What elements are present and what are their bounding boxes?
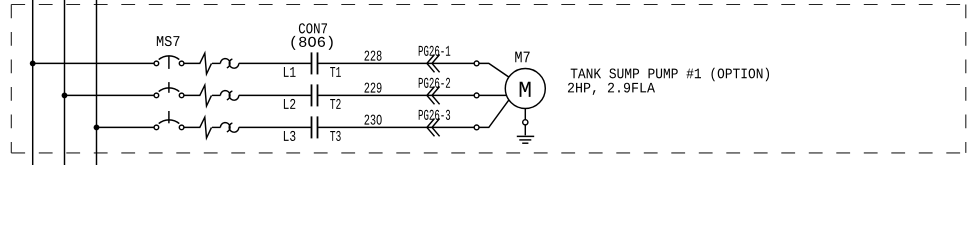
motor terminal node row 1: [474, 61, 479, 66]
ground terminal node: [523, 120, 528, 125]
wire row 2 contact to breaker: [184, 94, 201, 96]
label L1: [284, 67, 296, 77]
label L2: [284, 99, 295, 109]
overload heater element pole 2: [220, 91, 238, 101]
label M inside motor: [520, 82, 531, 97]
motor terminal node row 3: [474, 125, 479, 130]
wire 230 T3 to motor terminal: [318, 126, 474, 128]
overload heater element pole 1: [220, 59, 238, 69]
wire row 2 overload to CON7 terminal L2: [239, 94, 311, 96]
circuit-breaker element pole 2: [200, 85, 212, 106]
wire row 3 terminal to motor (diagonal): [479, 100, 509, 128]
wire phase bus 1 (vertical): [32, 0, 34, 165]
circuit-breaker element pole 1: [200, 53, 212, 74]
contact MS7 pole 2: [154, 88, 184, 98]
contactor CON7 terminal bars L2/T2: [312, 84, 318, 106]
label TANK SUMP PUMP #1 (OPTION): [571, 68, 769, 82]
wire row 1 breaker to overload: [212, 62, 221, 64]
wire row 2 breaker to overload: [212, 94, 221, 96]
wire 229 T2 to motor terminal: [318, 94, 474, 96]
contactor CON7 terminal bars L3/T3: [312, 116, 318, 138]
node junction row 2 on bus 2: [62, 93, 66, 97]
ground: [517, 136, 534, 143]
wire row 2 terminal to motor: [479, 94, 507, 96]
connector PG26-2 chevrons: [427, 87, 440, 105]
wire row 1 overload to CON7 terminal L1: [239, 62, 311, 64]
wire 228 T1 to motor terminal: [318, 62, 474, 64]
label L3: [284, 131, 295, 141]
motor terminal node row 2: [474, 93, 479, 98]
wire row 1 terminal to motor (diagonal): [479, 63, 509, 77]
label M7: [515, 52, 529, 63]
contactor CON7 terminal bars L1/T1: [312, 52, 318, 74]
wire ground terminal to ground: [524, 125, 526, 135]
label T2: [330, 99, 340, 109]
wire row 1 contact to breaker: [184, 62, 201, 64]
contact MS7 pole 1: [154, 56, 184, 66]
wire number 228: [365, 51, 382, 61]
wire row 3 contact to breaker: [184, 126, 201, 128]
wire row 2 bus to MS7 contact: [65, 94, 155, 96]
wire phase bus 3 (vertical): [96, 0, 98, 165]
overload heater element pole 3: [220, 123, 238, 133]
label 2HP, 2.9FLA: [568, 83, 655, 95]
wire number 229: [365, 83, 382, 93]
connector PG26-1 chevrons: [427, 55, 440, 73]
wire motor to ground terminal: [524, 109, 526, 120]
wire phase bus 2 (vertical): [64, 0, 66, 165]
label PG26-3: [419, 110, 450, 120]
label PG26-1: [419, 46, 451, 56]
label T1: [330, 67, 341, 77]
node junction row 3 on bus 3: [94, 125, 98, 129]
wire number 230: [365, 115, 382, 125]
wire row 3 overload to CON7 terminal L3: [239, 126, 311, 128]
wire row 3 breaker to overload: [212, 126, 221, 128]
mechanical linkage of MS7 poles (dashed operator line): [168, 56, 170, 124]
contact MS7 pole 3: [154, 120, 184, 130]
label CON7: [299, 23, 327, 33]
wire row 3 bus to MS7 contact: [97, 126, 155, 128]
motor M7 circle: [505, 69, 545, 109]
wire row 1 bus to MS7 contact: [33, 62, 154, 64]
label PG26-2: [419, 78, 450, 88]
connector PG26-3 chevrons: [427, 119, 440, 137]
label (806): [291, 36, 332, 50]
label T3: [330, 131, 341, 141]
label MS7: [157, 36, 180, 46]
node junction row 1 on bus 1: [31, 61, 35, 65]
circuit-breaker element pole 3: [200, 117, 212, 138]
